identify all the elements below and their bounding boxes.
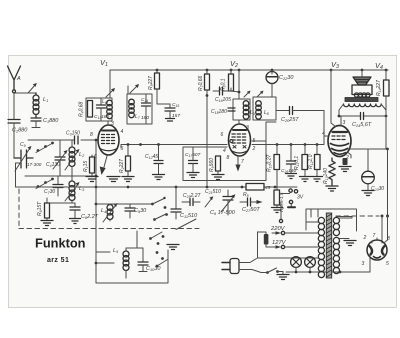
svg-text:8: 8 bbox=[387, 236, 390, 242]
node dots B+ line bbox=[127, 143, 319, 146]
svg-text:C18180: C18180 bbox=[211, 109, 227, 115]
tube V2 pin labels bbox=[221, 125, 256, 165]
wire L5 box bbox=[96, 248, 168, 283]
svg-text:127V: 127V bbox=[272, 240, 287, 246]
svg-text:2: 2 bbox=[363, 235, 367, 241]
switch mains bbox=[266, 268, 283, 274]
svg-text:3: 3 bbox=[362, 261, 365, 267]
capacitor C2 880 bbox=[8, 120, 20, 159]
terminal 220V bbox=[272, 231, 285, 235]
lamp 1 bbox=[291, 257, 302, 272]
power transformer core bbox=[326, 213, 331, 278]
svg-text:C20257: C20257 bbox=[281, 117, 299, 123]
svg-text:R615T: R615T bbox=[37, 201, 43, 216]
capacitor C27 50T bbox=[240, 198, 263, 206]
svg-text:C1880: C1880 bbox=[43, 118, 59, 124]
node dot x207 bbox=[206, 94, 209, 97]
selector left wire bbox=[257, 232, 259, 258]
wire vertical x96 bbox=[95, 140, 97, 283]
trimmer arrow antenna bbox=[28, 83, 37, 93]
wire dashed drop left bbox=[336, 216, 352, 219]
trimmer arrow C19 bbox=[205, 196, 213, 207]
svg-text:C930: C930 bbox=[134, 208, 147, 214]
fuse bbox=[258, 232, 273, 247]
svg-text:C2750T: C2750T bbox=[242, 207, 260, 213]
wire L5 left tap bbox=[95, 262, 114, 265]
speaker cone bbox=[353, 70, 371, 85]
svg-text:R80,1: R80,1 bbox=[221, 78, 227, 91]
resistor R6 15T bbox=[45, 203, 50, 220]
ground R11 bbox=[300, 177, 311, 182]
svg-text:3: 3 bbox=[246, 125, 249, 131]
wire row C bbox=[47, 198, 75, 203]
wire rect drop 1 bbox=[381, 216, 383, 243]
output transformer primary bbox=[339, 104, 386, 116]
variable capacitor C6 17-500 bbox=[221, 190, 235, 215]
ground C17 bbox=[187, 173, 199, 178]
resistor R10 0.27 bbox=[274, 145, 280, 191]
svg-text:8: 8 bbox=[90, 132, 93, 138]
node dots x96 bbox=[95, 139, 98, 206]
svg-text:4: 4 bbox=[121, 129, 124, 135]
wire plug bottom bbox=[239, 270, 266, 273]
wire rect drop 2 bbox=[385, 216, 388, 242]
wire primary bottom bbox=[315, 271, 318, 273]
capacitor C15 157 bbox=[165, 104, 175, 121]
resistor R1 15 bbox=[90, 155, 95, 176]
screen box around V2 cathode parts bbox=[183, 147, 266, 181]
svg-text:R70,66: R70,66 bbox=[198, 75, 204, 91]
resistor R2 227 bbox=[126, 145, 131, 177]
svg-text:R110,1: R110,1 bbox=[294, 156, 300, 170]
wire L8 to C20 bbox=[276, 110, 289, 112]
power transformer secondary top bbox=[333, 217, 339, 235]
svg-text:C252,2T: C252,2T bbox=[183, 193, 201, 199]
wire right column down bbox=[387, 149, 389, 216]
capacitor C24 5.6T bbox=[361, 113, 364, 120]
svg-text:R2227: R2227 bbox=[119, 159, 125, 173]
IF transformer box 3 L9 bbox=[233, 99, 250, 120]
svg-text:4: 4 bbox=[223, 148, 226, 154]
tube V1 bbox=[98, 121, 119, 155]
resistor R8 0.1 bbox=[229, 70, 240, 92]
capacitor C3 150 bbox=[75, 136, 79, 144]
svg-text:C1750T: C1750T bbox=[185, 152, 202, 158]
wire bus drop V3 bbox=[331, 70, 336, 127]
switch S1b bbox=[36, 178, 54, 189]
output transformer core bbox=[345, 98, 378, 102]
trimmer arrow L7 bbox=[130, 84, 139, 93]
ground Rn bbox=[272, 208, 283, 213]
speaker body bbox=[352, 85, 372, 97]
svg-text:arz 51: arz 51 bbox=[47, 257, 69, 264]
svg-text:3: 3 bbox=[343, 120, 346, 126]
terminal 3V bbox=[281, 189, 298, 207]
wire box stub primary bbox=[306, 221, 318, 223]
capacitor C23 30 electrolytic bbox=[362, 149, 375, 190]
wires into transformer top bbox=[311, 209, 318, 217]
capacitor C17 50T bbox=[189, 147, 198, 172]
wire bus drop x110 bbox=[109, 70, 111, 98]
svg-text:2: 2 bbox=[252, 146, 256, 152]
capacitor C11 510 bbox=[171, 187, 181, 219]
svg-text:C730: C730 bbox=[44, 189, 55, 195]
svg-text:C2880: C2880 bbox=[12, 128, 28, 134]
svg-text:C21510: C21510 bbox=[205, 189, 221, 195]
wire left riser to rail bbox=[16, 163, 22, 187]
svg-text:C3150: C3150 bbox=[66, 131, 80, 137]
wire diagonal to chassis bbox=[176, 219, 196, 230]
resistor R8h on rail bbox=[246, 184, 264, 191]
coil L6 bbox=[107, 100, 113, 119]
wire rectifier bottom bbox=[369, 259, 371, 273]
coil L1 bbox=[33, 93, 39, 118]
wire V3 grid drop bbox=[324, 111, 328, 137]
wire secondary ct ground bbox=[340, 239, 357, 246]
svg-text:R100,27: R100,27 bbox=[267, 155, 273, 172]
wire V2 plate to right bbox=[252, 122, 276, 147]
svg-text:C1245: C1245 bbox=[145, 154, 158, 160]
coil L3 bbox=[65, 176, 80, 203]
switch S2a bbox=[151, 197, 166, 209]
ground C23 bbox=[362, 191, 374, 196]
antenna A bbox=[8, 66, 21, 93]
terminal Rc bbox=[279, 203, 282, 223]
main rail y187 bbox=[16, 186, 298, 188]
variable capacitor C4 130 bbox=[53, 140, 68, 176]
coil L4 bbox=[103, 203, 118, 222]
svg-text:4: 4 bbox=[322, 131, 325, 137]
cathode blob V3 bbox=[343, 158, 348, 165]
capacitor C22 30 electrolytic bbox=[266, 70, 278, 97]
trimmer marks above L9 L8 bbox=[244, 91, 264, 98]
ground C25 bbox=[286, 174, 297, 179]
node row B y176 bbox=[25, 175, 96, 177]
svg-text:C2230: C2230 bbox=[279, 75, 294, 81]
svg-text:8: 8 bbox=[227, 155, 230, 161]
ground switch box bbox=[167, 245, 179, 250]
wire antenna node right bbox=[14, 92, 36, 94]
wire bus drop x239 bbox=[238, 70, 240, 99]
svg-text:A: A bbox=[16, 76, 21, 82]
coil L9 bbox=[243, 101, 249, 120]
capacitor C9b 30 bbox=[125, 204, 135, 218]
dashed chassis bottom bbox=[19, 228, 199, 230]
svg-text:R5227: R5227 bbox=[148, 76, 154, 90]
ground R12 bbox=[312, 177, 323, 182]
svg-text:R40,68: R40,68 bbox=[79, 101, 85, 117]
cathode arrow V1 bbox=[100, 156, 107, 175]
ground mains bbox=[277, 272, 289, 280]
capacitor C10 30 bbox=[138, 252, 148, 272]
resistor R5 227 bbox=[155, 70, 171, 104]
node dots dashed bbox=[381, 215, 390, 218]
capacitor C7 30 bbox=[53, 176, 63, 196]
rectifier tube V4 bbox=[367, 238, 387, 260]
potentiometer Rn 0.5-1.5 bbox=[274, 190, 280, 207]
cathode arrow V2 bbox=[235, 157, 240, 172]
node dots output bbox=[338, 115, 388, 118]
coil L2 bbox=[65, 140, 80, 176]
wire C23 node bbox=[350, 148, 388, 150]
resistor R14 227 bbox=[384, 70, 390, 149]
capacitor C18 180 bbox=[228, 108, 235, 111]
ground R2 bbox=[122, 177, 134, 182]
capacitor C20 257 bbox=[290, 107, 325, 115]
ground under V1 bbox=[107, 177, 120, 182]
svg-text:180: 180 bbox=[141, 115, 149, 121]
wire secondary bottom bbox=[339, 272, 342, 274]
wire y204 row bbox=[96, 203, 152, 205]
capacitor C13 180 bbox=[97, 98, 106, 121]
svg-text:C2330: C2330 bbox=[371, 186, 384, 192]
resistor R11 0.1 bbox=[302, 145, 308, 177]
resistor R13 140 zigzag bbox=[329, 158, 335, 185]
svg-text:R115: R115 bbox=[83, 161, 89, 172]
ground C8 bbox=[70, 219, 81, 224]
svg-text:3V: 3V bbox=[297, 195, 304, 201]
svg-text:C245,6T: C245,6T bbox=[352, 122, 372, 128]
resistor R7 0.66 bbox=[205, 70, 210, 187]
svg-text:R13140: R13140 bbox=[323, 168, 329, 184]
ground R9 bbox=[212, 175, 224, 180]
svg-text:220V: 220V bbox=[270, 226, 286, 232]
wire plug top bbox=[239, 259, 257, 263]
svg-text:6: 6 bbox=[221, 132, 224, 138]
svg-text:45: 45 bbox=[265, 185, 271, 191]
terminal 127V bbox=[272, 245, 285, 249]
coil L8 bbox=[256, 101, 262, 120]
variable capacitor C9 17-300 bbox=[14, 146, 33, 171]
svg-text:C6 17-500: C6 17-500 bbox=[210, 210, 236, 216]
wire 220V to primary bbox=[285, 232, 318, 234]
svg-text:C4130: C4130 bbox=[46, 162, 60, 168]
node dot x239 bbox=[238, 91, 241, 94]
svg-text:7: 7 bbox=[241, 159, 244, 165]
ground V3 cathode bbox=[339, 167, 351, 172]
ground R1 bbox=[86, 177, 98, 182]
svg-text:C11510: C11510 bbox=[180, 213, 198, 219]
top bus y70 bbox=[110, 69, 388, 71]
switch box under chassis bbox=[137, 231, 164, 248]
switch S3 bbox=[156, 251, 168, 267]
node row A y140 bbox=[28, 139, 96, 141]
svg-text:7: 7 bbox=[373, 233, 376, 239]
ground R6 bbox=[41, 221, 53, 226]
power transformer primary winding bbox=[318, 217, 324, 277]
wire antenna down bbox=[13, 93, 15, 120]
svg-text:C1030: C1030 bbox=[146, 266, 161, 272]
mains plug bbox=[222, 259, 239, 274]
ground C12 bbox=[153, 175, 165, 180]
wire V3 plate to output bbox=[340, 116, 342, 126]
svg-text:R14227: R14227 bbox=[376, 80, 382, 96]
svg-text:R121,0: R121,0 bbox=[308, 154, 314, 169]
wire box2 top bbox=[127, 86, 129, 94]
wire output bottom bbox=[339, 115, 386, 117]
dashed chassis left bbox=[18, 189, 20, 228]
wire B+ line y144.5 bbox=[121, 136, 324, 148]
switch S1a bbox=[36, 142, 54, 153]
capacitor C25 140 bbox=[287, 145, 296, 174]
tube V3 pin labels bbox=[322, 120, 349, 161]
svg-text:17-300: 17-300 bbox=[27, 162, 42, 167]
capacitor C1 880 bbox=[31, 118, 41, 128]
resistor R12 1.0 bbox=[315, 145, 321, 177]
svg-text:C16105: C16105 bbox=[215, 97, 231, 103]
tube V1 pin labels bbox=[90, 121, 124, 160]
power transformer secondary bottom bbox=[333, 237, 339, 273]
svg-text:5: 5 bbox=[386, 261, 389, 267]
svg-text:Funkton: Funkton bbox=[35, 236, 86, 251]
svg-text:157: 157 bbox=[172, 113, 180, 119]
IF transformer box 4 L8 bbox=[253, 97, 276, 120]
capacitor C12 45 bbox=[154, 145, 163, 175]
rail dots bbox=[127, 186, 277, 189]
wire 127V to primary bbox=[285, 246, 318, 248]
tube V3 bbox=[325, 116, 352, 158]
capacitor C14 180 bbox=[142, 94, 151, 124]
wire bottom psu bbox=[286, 271, 370, 273]
coil L7 bbox=[129, 99, 135, 118]
bus dots bbox=[156, 69, 388, 72]
wire secondary top right bbox=[340, 217, 353, 218]
capacitor C16 105 bbox=[213, 87, 231, 95]
capacitor C8 2.2T bbox=[70, 203, 80, 218]
svg-text:3: 3 bbox=[111, 121, 114, 127]
ground R13 bbox=[326, 186, 338, 191]
svg-text:R9560: R9560 bbox=[209, 158, 215, 172]
switch S2b bbox=[153, 213, 168, 221]
node dot right column bbox=[386, 148, 389, 151]
IF transformer box 2 bbox=[127, 94, 152, 124]
node dots psu bottom bbox=[295, 271, 342, 274]
PSU enclosure box bbox=[306, 209, 357, 231]
dashed chassis right bbox=[336, 215, 379, 217]
trimmer arrow L6 bbox=[106, 88, 115, 97]
tube V2 bbox=[229, 120, 251, 156]
rectifier pin labels bbox=[362, 233, 391, 267]
resistor R4 0.68 bbox=[88, 101, 93, 118]
lamp 2 bbox=[305, 257, 316, 272]
IF transformer box 1 bbox=[86, 98, 112, 121]
coil L5 bbox=[123, 248, 129, 278]
capacitor C26 2.2T bbox=[182, 199, 200, 206]
wire selector bottom bbox=[258, 257, 319, 259]
resistor R9 560 bbox=[216, 156, 221, 174]
